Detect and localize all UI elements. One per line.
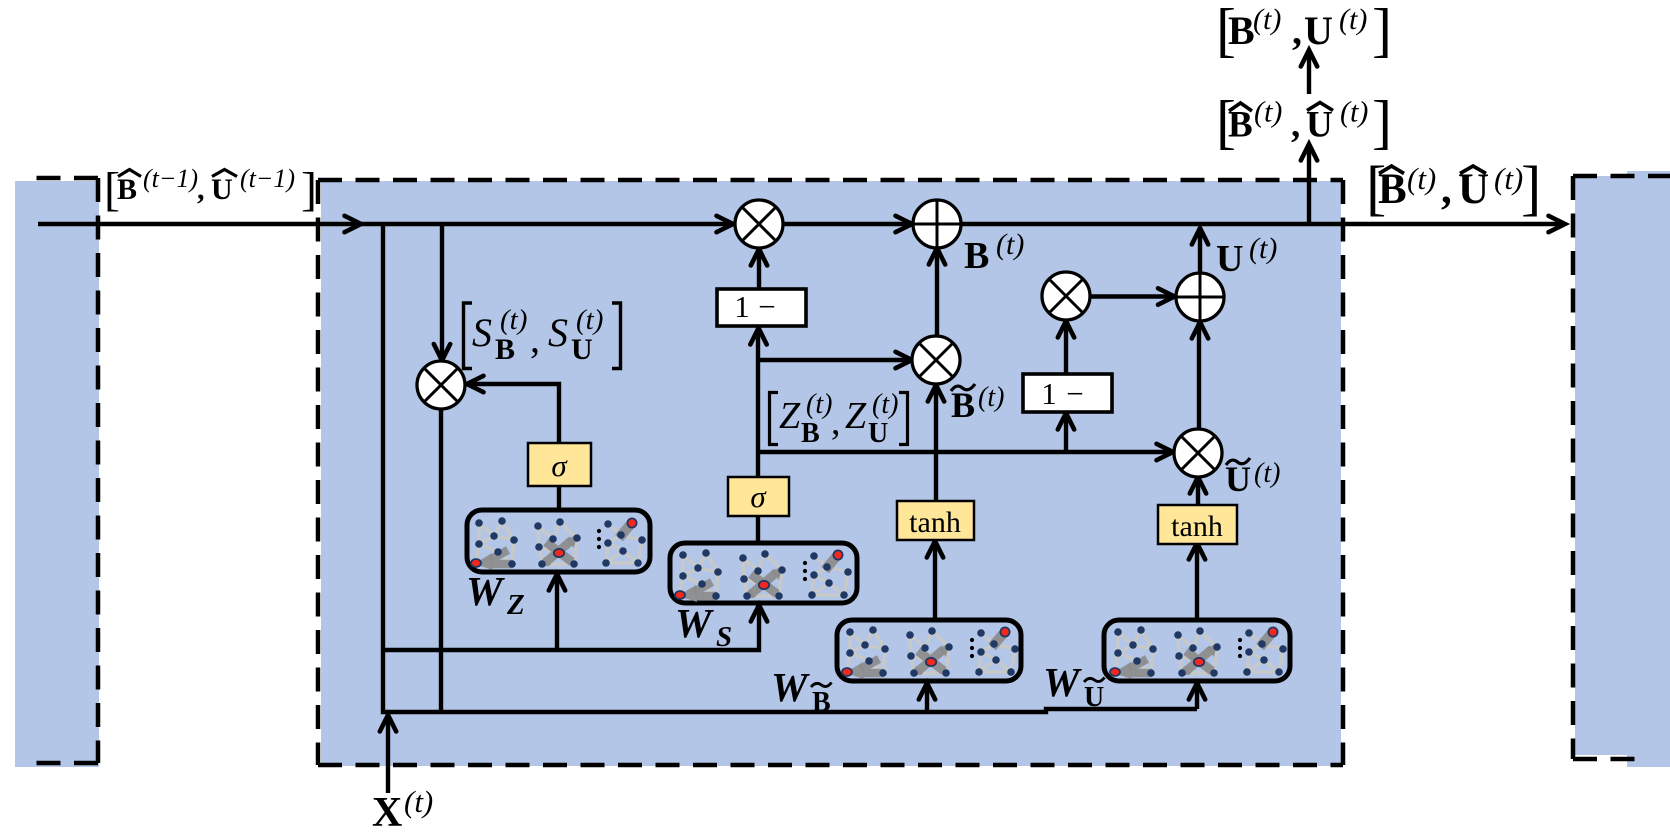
wire: z branch to Btilde multiply bbox=[758, 358, 911, 362]
svg-text:(t): (t) bbox=[1494, 161, 1523, 196]
svg-text:]: ] bbox=[301, 163, 317, 216]
wire: main state line from previous cell to next cell bbox=[38, 222, 1564, 226]
weight block W_S bbox=[670, 543, 857, 603]
box: tanh2 bbox=[1158, 505, 1237, 544]
box: sigma2 bbox=[728, 477, 789, 516]
arrowhead on state line entering main cell bbox=[345, 216, 362, 232]
label: Btilde(t) bbox=[951, 382, 1004, 425]
left cell dashed border bbox=[36, 178, 98, 763]
svg-text:(t): (t) bbox=[1407, 161, 1436, 196]
svg-text:,: , bbox=[1291, 105, 1300, 146]
svg-text:(t): (t) bbox=[806, 389, 832, 420]
svg-text:]: ] bbox=[1521, 156, 1541, 223]
wire: Btilde multiply output up into plus bbox=[935, 249, 939, 337]
svg-text:,: , bbox=[197, 173, 205, 206]
label: [Z_B(t), Z_U(t)] bbox=[770, 389, 908, 449]
wire: riser into W_Btilde bottom bbox=[925, 684, 929, 712]
main cell dashed border bbox=[318, 180, 1343, 765]
svg-text:B: B bbox=[495, 333, 515, 366]
wire: z branch long run to Utilde multiply bbox=[758, 450, 1172, 454]
svg-text:,: , bbox=[530, 316, 540, 361]
svg-text:B: B bbox=[951, 385, 975, 425]
svg-text:]: ] bbox=[1372, 89, 1392, 155]
wire: z junction up into 1- box #2 bbox=[1064, 414, 1068, 452]
wire: plus U output up to state line bbox=[1198, 229, 1202, 273]
left cell (previous time step) fill bbox=[15, 181, 99, 767]
arrowhead into multiply operator on state line bbox=[717, 216, 734, 232]
label: W_Z bbox=[466, 568, 525, 621]
svg-text:X: X bbox=[372, 790, 402, 834]
wire: W_Btilde output up into tanh1 bbox=[933, 542, 937, 620]
wire: input X^(t) arrow from below bbox=[386, 714, 390, 793]
svg-text:B: B bbox=[964, 235, 989, 277]
wire: hat output branch up through cell border bbox=[1307, 145, 1311, 224]
svg-text:U: U bbox=[1216, 238, 1243, 280]
label: W_S bbox=[675, 600, 732, 653]
wire: multiply node output down across buses to bottom bus bbox=[439, 405, 443, 712]
wire: vertical branch V1 from state line down and bottom bus to weight inputs bbox=[383, 222, 1197, 712]
svg-text:σ: σ bbox=[551, 448, 568, 483]
main cell fill bbox=[321, 181, 1341, 766]
wire: Utilde multiply output up into plus U bbox=[1197, 323, 1201, 430]
box: 1- #1 bbox=[717, 289, 806, 326]
svg-text:W: W bbox=[1043, 659, 1082, 705]
svg-text:,: , bbox=[831, 401, 841, 443]
svg-text:(t): (t) bbox=[576, 304, 603, 336]
operator: multiply (1-z) for U bbox=[1042, 272, 1090, 320]
wire: sigma1 output left into multiply node bbox=[468, 384, 559, 442]
operator: multiply with S gate bbox=[417, 361, 465, 409]
svg-text:B: B bbox=[1228, 8, 1255, 53]
svg-text:(t): (t) bbox=[978, 382, 1004, 413]
svg-text:tanh: tanh bbox=[909, 506, 961, 539]
svg-text:U: U bbox=[211, 173, 233, 206]
svg-text:(t): (t) bbox=[872, 389, 898, 420]
svg-text:U: U bbox=[1304, 8, 1333, 53]
svg-text:(t): (t) bbox=[1254, 458, 1280, 489]
svg-text:W: W bbox=[466, 568, 505, 614]
svg-text:U: U bbox=[1225, 459, 1251, 499]
svg-text:−: − bbox=[1066, 376, 1083, 411]
svg-text:U: U bbox=[1084, 682, 1104, 713]
svg-text:B: B bbox=[117, 173, 137, 206]
svg-text:(t−1): (t−1) bbox=[240, 164, 295, 193]
wire: riser into W_Z bottom bbox=[555, 575, 559, 650]
svg-text:σ: σ bbox=[750, 479, 767, 514]
label: B(t) on state line bbox=[964, 228, 1024, 277]
arrowhead of output state line at right cell bbox=[1549, 216, 1566, 232]
wire: W_Utilde output up into tanh2 bbox=[1195, 544, 1199, 620]
wire: middle bus feeding W_Z and W_S with riser into W_S bottom bbox=[383, 606, 759, 650]
weight block W_Btilde bbox=[837, 620, 1021, 681]
right cell (next time step) fill bbox=[1575, 176, 1629, 755]
svg-text:,: , bbox=[1441, 166, 1452, 213]
label: W_Utilde bbox=[1043, 659, 1105, 713]
svg-text:(t): (t) bbox=[500, 304, 527, 336]
wire: vertical branch V2 from state line into multiply node bbox=[440, 222, 444, 359]
svg-text:Z: Z bbox=[845, 395, 867, 437]
label: [S_B(t), S_U(t)] bbox=[464, 303, 621, 369]
wire: W_S output up to sigma2 bbox=[756, 515, 760, 543]
operator: multiply on state line bbox=[735, 200, 783, 248]
svg-text:(t): (t) bbox=[1254, 96, 1282, 129]
svg-text:Z: Z bbox=[506, 589, 525, 621]
wire: output to [B,U] top arrow bbox=[1307, 51, 1311, 94]
wire: 1- box #2 output up into multiply3 bbox=[1064, 322, 1068, 374]
label: mid output [Bhat(t), Uhat(t)] bbox=[1216, 89, 1392, 155]
svg-text:(t): (t) bbox=[1253, 3, 1281, 36]
wire: W_Z output up to sigma1 bbox=[557, 485, 561, 510]
svg-text:(t−1): (t−1) bbox=[143, 164, 198, 193]
svg-text:U: U bbox=[571, 333, 593, 366]
svg-text:S: S bbox=[716, 621, 732, 653]
wire: tanh2 output up into Utilde multiply bbox=[1196, 478, 1200, 505]
box: tanh1 bbox=[897, 501, 974, 540]
operator: plus B on state line bbox=[913, 200, 961, 248]
svg-text:W: W bbox=[771, 664, 810, 710]
wire: sigma2 output vertical up to 1- box bbox=[756, 329, 760, 477]
svg-text:S: S bbox=[548, 310, 568, 355]
svg-text:S: S bbox=[472, 310, 492, 355]
svg-text:B: B bbox=[801, 418, 820, 449]
svg-text:,: , bbox=[1292, 8, 1302, 53]
label: top output [B(t), U(t)] bbox=[1216, 0, 1392, 63]
operator: plus U bbox=[1176, 273, 1224, 321]
svg-text:(t): (t) bbox=[1340, 96, 1368, 129]
weight block W_Utilde bbox=[1104, 620, 1290, 681]
arrowhead into plus operator on state line bbox=[896, 216, 913, 232]
svg-text:Z: Z bbox=[779, 395, 801, 437]
svg-text:1: 1 bbox=[1041, 376, 1057, 411]
svg-text:W: W bbox=[675, 600, 714, 646]
weight block W_Z bbox=[467, 510, 650, 572]
wire: multiply3 output right into plus U bbox=[1089, 294, 1174, 298]
svg-text:]: ] bbox=[1372, 0, 1392, 63]
svg-text:(t): (t) bbox=[996, 228, 1024, 261]
svg-text:tanh: tanh bbox=[1171, 510, 1223, 543]
svg-text:1: 1 bbox=[734, 289, 750, 324]
svg-text:−: − bbox=[758, 289, 775, 324]
label: right output [Bhat(t), Uhat(t)] bbox=[1366, 156, 1541, 223]
label: Utilde(t) bbox=[1225, 458, 1280, 499]
label: X(t) input bbox=[372, 784, 433, 834]
box: 1- #2 bbox=[1023, 374, 1112, 412]
label: U(t) bbox=[1216, 232, 1277, 280]
box: sigma1 bbox=[528, 443, 591, 486]
svg-text:B: B bbox=[812, 687, 831, 718]
wire: tanh1 output up into Btilde multiply bbox=[934, 386, 938, 501]
label: W_Btilde bbox=[771, 664, 832, 718]
svg-text:(t): (t) bbox=[404, 784, 433, 819]
svg-text:U: U bbox=[868, 418, 888, 449]
operator: multiply Utilde bbox=[1174, 429, 1222, 477]
wire: riser at end of bus into W_Utilde bottom bbox=[1195, 684, 1199, 709]
svg-text:(t): (t) bbox=[1339, 3, 1367, 36]
operator: multiply Btilde bbox=[912, 336, 960, 384]
wire: 1- box #1 output up into multiply on state line bbox=[757, 250, 761, 289]
right cell dashed border bbox=[1573, 176, 1670, 759]
svg-text:(t): (t) bbox=[1249, 232, 1277, 265]
label: input state [Bhat(t-1), Uhat(t-1)] bbox=[104, 163, 317, 216]
